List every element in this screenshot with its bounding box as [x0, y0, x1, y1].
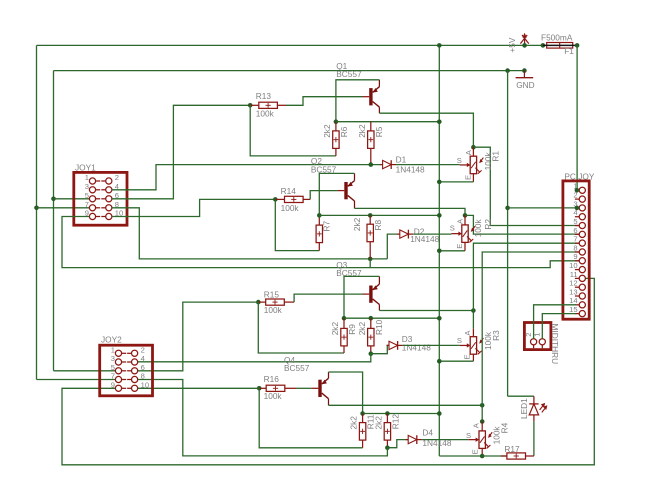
resistor R16: [266, 385, 285, 391]
resistor R7 bottom lead: [318, 243, 320, 251]
svg-text:6: 6: [573, 226, 577, 235]
label R1 A: [464, 149, 473, 155]
junction R4 E: [480, 454, 485, 459]
wire D1 to R1 wiper: [396, 164, 460, 166]
PC JOY pin 2: [575, 196, 586, 202]
label MIDITHRU pin2: [524, 333, 533, 337]
label JOY1: [75, 162, 96, 172]
resistor R17: [507, 453, 526, 459]
wire Q3 collector: [379, 310, 473, 312]
junction PC JOY pin1: [575, 188, 580, 193]
label R15: [264, 289, 280, 299]
JOY2 pin 9 number: [111, 381, 115, 390]
svg-text:3: 3: [85, 182, 89, 191]
junction R1 E rail: [437, 180, 442, 185]
svg-text:R9: R9: [347, 324, 357, 335]
svg-text:D1: D1: [396, 155, 407, 165]
wire JOY2 pin10 to R16: [138, 387, 260, 389]
label R17: [504, 444, 520, 454]
wire pin8-pin9 link: [369, 259, 371, 268]
label D1: [396, 155, 407, 165]
junction GND to PCJOY pin3: [505, 206, 510, 211]
JOY1 pin 7 number: [85, 200, 89, 209]
svg-text:R12: R12: [390, 414, 400, 430]
wire second vertical (JOY pins 5 rail): [53, 71, 55, 371]
PC JOY pin 15: [575, 311, 586, 317]
label R12: [390, 414, 400, 430]
label F1: [564, 46, 574, 56]
wire GND to pin3: [508, 207, 580, 209]
wire MIDITHRU pin1 to PCJOY pin15: [542, 314, 576, 339]
svg-text:12: 12: [569, 279, 577, 288]
JOY2 pin 3: [115, 359, 126, 365]
wire R14 down to R7 bottom: [275, 199, 319, 250]
resistor R7 top lead: [318, 215, 320, 225]
svg-text:R3: R3: [491, 330, 501, 341]
PC JOY pin 3: [575, 205, 586, 211]
label R6 value: [322, 124, 332, 138]
JOY1 pin 1 number: [85, 173, 89, 182]
junction on x36.5 at JOY1 pin7: [34, 206, 39, 211]
wire JOY1 pin4 net: [112, 165, 381, 190]
label LED1: [519, 398, 529, 419]
svg-text:13: 13: [569, 287, 577, 296]
svg-text:10: 10: [569, 261, 577, 270]
wire +5V top rail: [37, 44, 543, 46]
wire GND rail vertical: [507, 71, 509, 397]
svg-text:100k: 100k: [264, 391, 283, 401]
label R4 value: [492, 426, 502, 445]
wire R13 down to R6: [250, 105, 336, 156]
wire JOY1 pin9 net: [62, 217, 579, 268]
trimmer R2: [451, 225, 475, 243]
transistor Q1: [363, 80, 380, 113]
PC JOY pin 3 number: [573, 199, 577, 208]
resistor R5 leads: [370, 122, 372, 165]
junction Q3 bus rail: [437, 316, 442, 321]
junction GND tap: [505, 68, 510, 73]
svg-text:100k: 100k: [473, 218, 483, 237]
label R11 value: [349, 416, 359, 430]
svg-text:D4: D4: [422, 427, 433, 437]
JOY2 pin 8: [127, 376, 138, 382]
ground symbol: [516, 71, 534, 78]
svg-text:BC557: BC557: [336, 69, 362, 79]
PC JOY pin 1: [575, 187, 586, 193]
label R16: [264, 374, 280, 384]
connector MIDITHRU box: [524, 323, 551, 350]
svg-text:R4: R4: [500, 422, 510, 433]
wire second frame horizontal (GND row): [54, 70, 525, 72]
wire left outer vertical (JOY pins 7 rail): [36, 45, 38, 379]
junction R8 top: [368, 213, 373, 218]
PC JOY pin 9: [575, 258, 586, 264]
wire Q2 bus: [319, 214, 439, 216]
svg-text:PC JOY: PC JOY: [564, 171, 594, 181]
svg-text:7: 7: [573, 235, 577, 244]
label R2 A: [456, 218, 465, 224]
wire MIDITHRU pin2 to PCJOY pin14: [534, 305, 576, 339]
svg-text:F500mA: F500mA: [541, 32, 573, 42]
wire Q2 emitter: [319, 173, 354, 215]
junction Q3 bus left: [342, 316, 347, 321]
PC JOY pin 4 number: [573, 208, 577, 217]
resistor R14 leads: [275, 198, 310, 200]
resistor R11 leads: [362, 414, 364, 448]
svg-text:2k2: 2k2: [357, 124, 367, 138]
wire R13 to Q1 base: [286, 97, 363, 106]
label Q3 value: [336, 268, 362, 278]
label Q1 value: [336, 69, 362, 79]
junction R3 E rail: [437, 359, 442, 364]
JOY1 pin 2: [101, 178, 112, 184]
svg-text:GND: GND: [516, 80, 534, 90]
wire LED1 to R17: [533, 421, 535, 456]
wire JOY1 pin10 to R14: [112, 199, 275, 216]
JOY2 pin 5 number: [111, 363, 115, 372]
trimmer R2 E lead: [464, 242, 466, 250]
wire JOY2 pin9 to PCJOY pin11: [62, 278, 594, 464]
svg-text:100k: 100k: [281, 203, 300, 213]
svg-text:2: 2: [115, 173, 119, 182]
svg-text:JOY1: JOY1: [75, 162, 96, 172]
resistor R12: [384, 423, 390, 441]
wire R16 to Q4 base: [296, 387, 312, 389]
resistor R13: [259, 102, 278, 108]
connector JOY1 box: [74, 172, 127, 225]
svg-text:R8: R8: [373, 220, 383, 231]
label R8: [373, 220, 383, 231]
wire R3 E to rail: [439, 360, 473, 362]
JOY1 pin 2 number: [115, 173, 119, 182]
junction Q4 collector pin8: [480, 403, 485, 408]
svg-text:2k2: 2k2: [373, 416, 383, 430]
fuse F1 body: [543, 43, 577, 49]
svg-text:LED1: LED1: [519, 398, 529, 419]
label R11: [366, 414, 376, 429]
svg-text:1N4148: 1N4148: [410, 234, 439, 244]
JOY1 pin 8: [101, 205, 112, 211]
diode D2: [397, 230, 413, 239]
junction +5V: [522, 43, 527, 48]
junction R16 left: [257, 386, 262, 391]
svg-text:E: E: [471, 449, 480, 454]
resistor R17 leads: [482, 455, 534, 457]
label R3 value: [483, 331, 493, 350]
PC JOY pin 5 number: [573, 217, 577, 226]
label Q3: [336, 260, 347, 270]
trimmer R3: [460, 337, 484, 355]
wire pin8 to R4 A: [482, 252, 579, 422]
label R15 value: [264, 305, 283, 315]
JOY2 pin 4: [127, 359, 138, 365]
JOY1 pin 10: [101, 213, 112, 219]
JOY2 pin 1: [115, 350, 126, 356]
label MIDITHRU pin1: [533, 333, 542, 337]
junction R3 A: [471, 308, 476, 313]
wire R16 down to R11: [259, 388, 362, 448]
svg-text:+5V: +5V: [507, 37, 517, 52]
svg-text:5: 5: [111, 363, 115, 372]
label R8 value: [352, 217, 362, 231]
label R13 value: [256, 109, 275, 119]
JOY2 pin 10: [127, 385, 138, 391]
svg-text:14: 14: [569, 296, 577, 305]
trimmer R4 A lead: [481, 422, 483, 431]
wire Q1 emitter: [336, 80, 380, 122]
resistor R16 leads: [259, 387, 296, 389]
JOY1 pin 6 number: [115, 191, 119, 200]
junction fuse left: [541, 43, 546, 48]
trimmer R3 E lead: [472, 354, 474, 361]
junction R13 left: [248, 103, 253, 108]
PC JOY pin 7: [575, 240, 586, 246]
JOY2 pin 7 number: [111, 372, 115, 381]
JOY1 pin 10 number: [115, 209, 123, 218]
svg-text:E: E: [455, 244, 464, 249]
svg-text:MIDITHRU: MIDITHRU: [550, 324, 560, 365]
label R2 E: [455, 244, 464, 249]
JOY2 pin 9: [115, 385, 126, 391]
wire JOY2 pin4 link: [138, 354, 371, 362]
junction R15 left: [256, 300, 261, 305]
junction R12 bottom: [385, 445, 390, 450]
PC JOY pin 10: [575, 266, 586, 272]
svg-text:BC557: BC557: [284, 363, 310, 373]
junction R10 bottom: [369, 351, 374, 356]
wire fuse to PC JOY pin1: [576, 45, 578, 190]
wire Q3 bus: [344, 317, 439, 319]
svg-text:3: 3: [111, 354, 115, 363]
junction fuse right: [575, 43, 580, 48]
PC JOY pin 7 number: [573, 235, 577, 244]
transistor Q3: [363, 276, 380, 310]
PC JOY pin 12: [575, 284, 586, 290]
svg-text:1N4148: 1N4148: [402, 342, 431, 352]
wire +5V vertical rail: [438, 45, 440, 456]
label F500mA: [541, 32, 573, 42]
junction Q2 bus left: [317, 213, 322, 218]
label D4 value: [422, 438, 451, 448]
wire R14 to Q2 base: [310, 191, 337, 200]
resistor R9: [341, 328, 347, 346]
svg-text:R5: R5: [374, 126, 384, 137]
JOY2 pin 2: [127, 350, 138, 356]
svg-text:R7: R7: [322, 221, 332, 232]
junction PC JOY pin3: [575, 206, 580, 211]
MIDITHRU pin 2: [531, 339, 537, 349]
JOY2 pin 6: [127, 368, 138, 374]
diode D1: [380, 160, 396, 169]
JOY1 pin 5: [89, 196, 100, 202]
svg-text:R2: R2: [483, 219, 493, 230]
resistor R11: [359, 423, 365, 441]
label R1 S: [457, 156, 462, 165]
svg-text:R17: R17: [504, 444, 520, 454]
label R3 S: [457, 336, 462, 345]
wire D2 to R2 wiper: [413, 233, 451, 235]
junction Q4 bus left: [360, 411, 365, 416]
label MIDITHRU: [550, 324, 560, 365]
resistor R10: [368, 328, 374, 346]
trimmer R3 A lead: [472, 311, 474, 337]
svg-text:11: 11: [570, 270, 578, 279]
resistor R14: [285, 196, 304, 202]
label Q4: [284, 355, 295, 365]
wire Q3 emitter: [344, 276, 379, 318]
svg-text:S: S: [450, 223, 455, 232]
junction on x53.5 at JOY1 pin5: [51, 197, 56, 202]
label R10: [374, 319, 384, 335]
wire Q2 collector: [355, 208, 466, 215]
svg-text:8: 8: [573, 243, 577, 252]
wire Q4 bus: [363, 413, 440, 415]
svg-text:5: 5: [573, 217, 577, 226]
wire JOY2 pin7 feed: [37, 379, 116, 381]
svg-text:7: 7: [85, 200, 89, 209]
junction R12 top: [385, 411, 390, 416]
JOY1 pin 5 number: [85, 191, 89, 200]
label JOY2: [101, 335, 122, 345]
label R3 E: [463, 354, 472, 359]
svg-text:R13: R13: [256, 91, 272, 101]
label R7: [322, 221, 332, 232]
PC JOY pin 14: [575, 302, 586, 308]
junction R4 A: [480, 419, 485, 424]
JOY1 pin 3: [89, 187, 100, 193]
svg-text:1N4148: 1N4148: [396, 165, 425, 175]
PC JOY pin 4: [575, 214, 586, 220]
svg-text:F1: F1: [564, 46, 574, 56]
diode D4: [406, 435, 422, 444]
resistor R6 leads: [335, 122, 337, 156]
PC JOY pin 13: [575, 293, 586, 299]
trimmer R4: [469, 431, 493, 449]
MIDITHRU pin 1: [539, 339, 545, 349]
junction R1 A: [471, 145, 476, 150]
svg-text:S: S: [466, 431, 471, 440]
label R1 value: [483, 151, 493, 170]
PC JOY pin 2 number: [573, 191, 577, 200]
label D4: [422, 427, 433, 437]
label R2 name: [483, 219, 493, 230]
svg-text:1: 1: [111, 346, 115, 355]
PC JOY pin 6: [575, 231, 586, 237]
wire D4 to R4 wiper: [422, 439, 469, 441]
resistor R15: [266, 299, 285, 305]
resistor R7: [316, 225, 322, 243]
label R14: [281, 186, 297, 196]
label R9: [347, 324, 357, 335]
junction R10 top: [369, 316, 374, 321]
label D2: [414, 227, 425, 237]
led LED1: [529, 396, 547, 421]
label D1 value: [396, 165, 425, 175]
JOY2 pin 10 number: [141, 381, 149, 390]
label R9 value: [330, 322, 340, 336]
label R1 name: [491, 151, 501, 162]
JOY1 pin 3 number: [85, 182, 89, 191]
svg-text:4: 4: [141, 354, 145, 363]
wire R2 A to pin6: [465, 215, 579, 234]
trimmer R1 A lead: [472, 147, 474, 156]
label R16 value: [264, 391, 283, 401]
svg-text:100k: 100k: [264, 305, 283, 315]
svg-text:9: 9: [111, 381, 115, 390]
JOY2 pin 8 number: [141, 372, 145, 381]
PC JOY pin 5: [575, 222, 586, 228]
junction Q2 bus rail: [437, 213, 442, 218]
PC JOY pin 14 number: [569, 296, 577, 305]
wire JOY2 pin8 net: [138, 380, 388, 456]
svg-text:2k2: 2k2: [330, 322, 340, 336]
svg-text:9: 9: [573, 252, 577, 261]
wire R12 to D4 anode: [387, 440, 407, 448]
junction R5 bottom: [369, 162, 374, 167]
JOY2 pin 7: [115, 376, 126, 382]
label R2 value: [473, 218, 483, 237]
wire R1 E to rail: [439, 181, 473, 183]
JOY2 pin 4 number: [141, 354, 145, 363]
JOY1 pin 7: [89, 205, 100, 211]
resistor R5: [368, 131, 374, 149]
resistor R9 leads: [343, 318, 345, 353]
svg-text:S: S: [457, 156, 462, 165]
wire D2 anode link: [387, 234, 398, 259]
JOY1 pin 6: [101, 196, 112, 202]
label R12 value: [373, 416, 383, 430]
transistor Q4: [312, 372, 329, 405]
svg-text:8: 8: [141, 372, 145, 381]
junction Q1 bus rail: [437, 119, 442, 124]
JOY1 pin 4 number: [115, 182, 119, 191]
label R4 name: [500, 422, 510, 433]
JOY1 pin 4: [101, 187, 112, 193]
JOY2 pin 2 number: [141, 346, 145, 355]
label R5 value: [357, 124, 367, 138]
wire R2 E to rail: [439, 250, 465, 252]
svg-text:R10: R10: [374, 319, 384, 335]
PC JOY pin 11 number: [570, 270, 578, 279]
trimmer R2 A lead: [464, 215, 466, 225]
resistor R8: [367, 224, 373, 242]
svg-text:R6: R6: [339, 126, 349, 137]
label R14 value: [281, 203, 300, 213]
junction R14 left: [273, 197, 278, 202]
resistor R8 leads: [369, 215, 371, 259]
JOY2 pin 1 number: [111, 346, 115, 355]
diode D3: [387, 341, 403, 350]
JOY2 pin 3 number: [111, 354, 115, 363]
wire R1 A to pin5: [473, 147, 579, 225]
svg-text:2: 2: [141, 346, 145, 355]
PC JOY pin 10 number: [569, 261, 577, 270]
junction R2 A: [463, 213, 468, 218]
JOY1 pin 9: [89, 213, 100, 219]
label R13: [256, 91, 272, 101]
resistor R13 leads: [250, 104, 286, 106]
PC JOY pin 8: [575, 249, 586, 255]
resistor R10 leads: [370, 318, 372, 354]
label D2 value: [410, 234, 439, 244]
wire R15 down to R9: [258, 302, 344, 353]
junction Q1 bus left: [334, 119, 339, 124]
svg-text:JOY2: JOY2: [101, 335, 122, 345]
junction rail top: [437, 43, 442, 48]
svg-text:R1: R1: [491, 151, 501, 162]
junction R2 E rail: [437, 249, 442, 254]
svg-text:6: 6: [141, 363, 145, 372]
